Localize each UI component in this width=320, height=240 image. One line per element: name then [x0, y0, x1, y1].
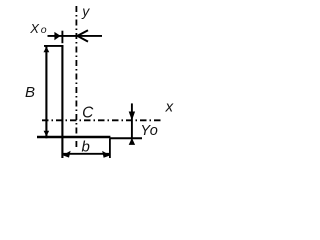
wire profile top edge	[44, 45, 63, 47]
wire Xo dimension line	[48, 35, 103, 37]
wire Yo bottom extension line	[110, 137, 142, 139]
wire b dimension line	[62, 153, 110, 155]
arrow b left	[63, 151, 71, 158]
svg-text:y: y	[81, 3, 90, 19]
arrow Xo left-pointing (open)	[77, 30, 88, 41]
wire profile bottom edge	[37, 136, 110, 139]
svg-text:C: C	[82, 105, 94, 122]
node y-axis (vertical centerline)	[75, 6, 77, 147]
svg-text:x: x	[165, 99, 174, 116]
svg-text:o: o	[150, 123, 158, 139]
svg-text:X: X	[29, 21, 40, 36]
svg-text:o: o	[41, 24, 47, 36]
wire profile left edge / B dimension line	[45, 45, 47, 138]
node x-axis (horizontal centerline)	[42, 119, 161, 121]
svg-text:b: b	[82, 138, 90, 155]
svg-text:B: B	[25, 84, 35, 101]
wire leg right edge	[61, 45, 63, 158]
wire extension of leg right edge (above profile)	[61, 31, 63, 44]
wire b right extension line	[109, 138, 111, 158]
wire Yo dimension line	[131, 103, 133, 139]
arrow B top	[44, 47, 50, 53]
arrow b right	[102, 151, 110, 158]
arrow Yo down-pointing at x-axis	[129, 112, 135, 121]
arrow Xo right-pointing	[54, 32, 60, 40]
arrow B bottom	[44, 131, 50, 137]
arrow Yo up-pointing at bottom line	[129, 138, 135, 145]
